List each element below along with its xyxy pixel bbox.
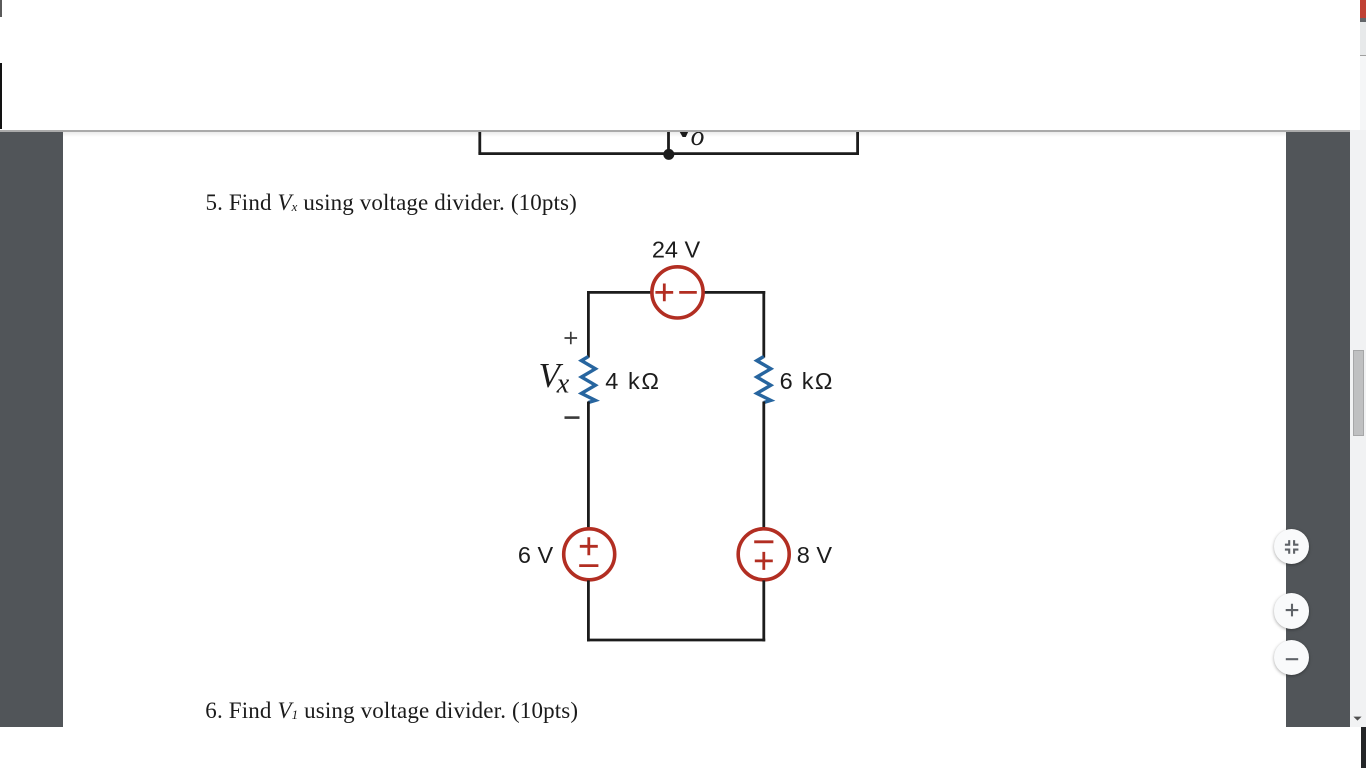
embed scrollbar track xyxy=(1350,130,1366,727)
node: output node dot xyxy=(663,149,674,160)
resistor 4k zigzag xyxy=(581,357,595,403)
wire: right column lower xyxy=(762,580,765,641)
svg-text:x: x xyxy=(556,369,570,400)
zoom fit button xyxy=(1274,529,1309,564)
question 6 text xyxy=(205,698,578,724)
node label Vo (partially hidden) xyxy=(679,131,689,138)
zoom out button xyxy=(1274,640,1309,675)
6V minus sign xyxy=(579,564,598,567)
top white band xyxy=(0,0,1366,130)
8V minus sign xyxy=(754,540,773,543)
wire: left column mid xyxy=(587,402,590,529)
outer scrollbar: lower track xyxy=(1360,56,1366,130)
wire: previous-problem right vertical xyxy=(856,118,859,154)
pdf page xyxy=(63,130,1286,727)
wire: right column mid xyxy=(762,402,765,529)
outer scrollbar: upper track xyxy=(1360,22,1366,55)
question 5 text xyxy=(206,190,577,216)
resistor 6k zigzag xyxy=(757,357,771,403)
svg-text:8 V: 8 V xyxy=(797,542,833,568)
top-left window sliver: upper gray xyxy=(0,0,2,17)
embed scrollbar thumb xyxy=(1353,350,1364,437)
wire: top rail left segment xyxy=(587,291,651,294)
outer scrollbar: red find tick xyxy=(1360,0,1366,18)
wire: previous-problem output stub xyxy=(667,118,670,154)
voltage source 24V circle xyxy=(652,267,703,318)
24V plus sign xyxy=(655,284,673,302)
8V plus sign xyxy=(755,552,773,570)
wire: previous-problem left vertical xyxy=(478,118,481,154)
wire: right column upper xyxy=(762,291,765,358)
wire: previous-problem bottom rail xyxy=(478,152,859,155)
outer scrollbar: track divider xyxy=(1360,55,1366,57)
6V plus sign xyxy=(580,537,598,555)
bottom-right black bar xyxy=(1361,727,1366,768)
svg-text:6 V: 6 V xyxy=(518,542,554,568)
voltage source 6V circle xyxy=(564,529,615,580)
wire: left column lower xyxy=(587,580,590,641)
wire: top rail right segment xyxy=(704,291,765,294)
outer scrollbar: thumb below tick xyxy=(1360,18,1366,22)
wire: left column upper xyxy=(587,291,590,358)
top-left window sliver: lower black xyxy=(0,63,2,129)
Vx minus polarity mark xyxy=(565,416,580,419)
svg-text:4 kΩ: 4 kΩ xyxy=(605,368,660,394)
svg-text:24 V: 24 V xyxy=(652,236,701,262)
24V minus sign xyxy=(679,291,697,294)
band bottom edge line xyxy=(0,130,1350,132)
wire: bottom rail xyxy=(587,639,765,642)
viewer background xyxy=(0,130,1350,727)
zoom in button xyxy=(1274,593,1309,628)
band shadow xyxy=(63,132,1286,137)
voltage source 8V circle xyxy=(738,529,789,580)
svg-text:6 kΩ: 6 kΩ xyxy=(780,368,834,394)
Vx plus polarity mark xyxy=(565,332,578,345)
scrollbar down arrow xyxy=(1352,714,1364,723)
